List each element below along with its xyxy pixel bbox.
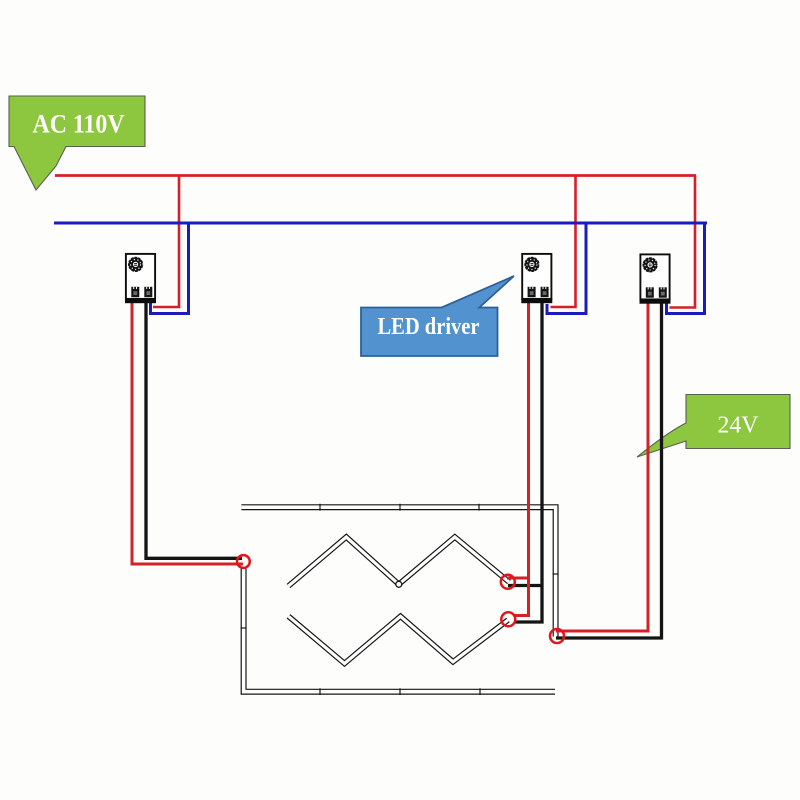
svg-text:AC 110V: AC 110V: [33, 110, 125, 139]
svg-text:24V: 24V: [718, 413, 760, 439]
svg-text:LED driver: LED driver: [378, 314, 480, 340]
